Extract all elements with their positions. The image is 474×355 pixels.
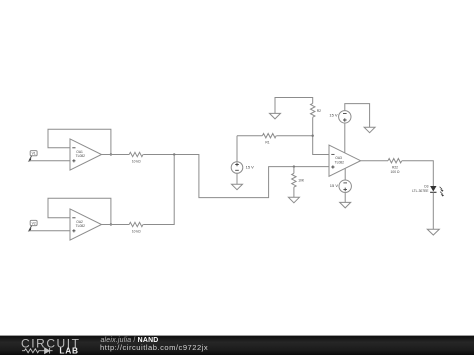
wire V2 to OA2 + input bbox=[29, 230, 70, 232]
footer logo diode glyph bbox=[41, 348, 52, 354]
svg-text:OA1: OA1 bbox=[76, 150, 83, 154]
footer logo resistor glyph bbox=[22, 349, 41, 353]
wire R3 to corner bbox=[143, 155, 329, 198]
ground below LED bbox=[427, 229, 439, 235]
svg-text:V1: V1 bbox=[32, 152, 36, 156]
voltage source V5 15 V (negative rail) bbox=[339, 180, 351, 192]
voltage source V3 15 V bbox=[231, 136, 243, 185]
svg-text:TL082: TL082 bbox=[76, 224, 86, 228]
wire V4 top to ground bbox=[345, 104, 370, 128]
wire OA3 V- pin to V5 bbox=[344, 169, 346, 181]
wire OA2 feedback loop bbox=[48, 198, 111, 224]
LED D3 LTL-307EE bbox=[430, 186, 444, 196]
node junction OA2 output/feedback bbox=[110, 223, 112, 225]
svg-text:R22: R22 bbox=[392, 166, 398, 170]
svg-text:OA3: OA3 bbox=[335, 156, 342, 160]
wire R2 to OA3 - input bbox=[313, 117, 329, 154]
op-amp OA2 bbox=[70, 209, 102, 240]
ground below V5 bbox=[340, 202, 351, 208]
resistor R3 10 kOhm bbox=[129, 152, 143, 156]
node junction OA1 output/feedback bbox=[110, 153, 112, 155]
svg-text:15 V: 15 V bbox=[246, 164, 255, 169]
svg-text:R1: R1 bbox=[265, 141, 269, 145]
resistor R22 100 Ohm bbox=[388, 159, 402, 163]
svg-text:D3: D3 bbox=[424, 185, 428, 189]
ground below V3 bbox=[232, 184, 243, 190]
op-amp OA1 bbox=[70, 139, 102, 170]
wire V1 to OA1 + input bbox=[29, 160, 70, 162]
wire OA1 feedback loop bbox=[48, 129, 111, 154]
ground above R2 bbox=[270, 98, 313, 119]
svg-text:10 kΩ: 10 kΩ bbox=[132, 230, 141, 234]
wire V4 to OA3 V+ pin bbox=[344, 123, 346, 153]
wire R1 to junction bbox=[276, 135, 312, 137]
ground below R5 bbox=[288, 197, 299, 203]
svg-text:15 V: 15 V bbox=[329, 112, 338, 117]
wire OA1 output to resistor R3 bbox=[102, 154, 130, 156]
wire junction down to OA2 output branch bbox=[143, 155, 174, 225]
svg-text:10 kΩ: 10 kΩ bbox=[132, 160, 141, 164]
footer bar bbox=[0, 336, 474, 355]
resistor R1 bbox=[262, 134, 276, 138]
wire V5 bottom to ground bbox=[344, 192, 346, 202]
svg-text:15 V: 15 V bbox=[330, 183, 339, 188]
svg-text:100 Ω: 100 Ω bbox=[391, 170, 400, 174]
svg-text:OA2: OA2 bbox=[76, 220, 83, 224]
node junction R1/R2 bbox=[312, 135, 314, 137]
svg-text:http://circuitlab.com/c9722jx: http://circuitlab.com/c9722jx bbox=[100, 343, 208, 352]
wire LED to ground bbox=[432, 192, 434, 229]
svg-text:R2: R2 bbox=[317, 109, 321, 113]
node junction +input / 10K bbox=[293, 165, 295, 167]
svg-text:10K: 10K bbox=[298, 179, 305, 183]
wire V3 top to resistor R1 bbox=[237, 135, 262, 137]
node junction summing bbox=[173, 153, 175, 155]
voltage source V4 15 V (positive rail) bbox=[339, 111, 351, 123]
svg-text:LTL-307EE: LTL-307EE bbox=[412, 189, 429, 193]
wire R22 to LED bbox=[402, 161, 433, 186]
resistor R5 10K (vertical) bbox=[292, 167, 296, 198]
wire OA3 output to resistor R22 bbox=[361, 160, 388, 162]
op-amp OA3 bbox=[329, 145, 361, 176]
svg-text:LAB: LAB bbox=[59, 346, 78, 355]
resistor R2 (vertical) bbox=[311, 103, 315, 117]
node V1 flag bbox=[29, 151, 38, 162]
node V2 flag bbox=[29, 220, 38, 231]
wire OA2 output to resistor R4 bbox=[102, 224, 130, 226]
resistor R4 10 kOhm bbox=[129, 222, 143, 226]
ground right of V4 bbox=[364, 127, 375, 133]
svg-text:V2: V2 bbox=[32, 222, 36, 226]
svg-text:TL082: TL082 bbox=[335, 160, 345, 164]
svg-text:TL082: TL082 bbox=[76, 154, 86, 158]
